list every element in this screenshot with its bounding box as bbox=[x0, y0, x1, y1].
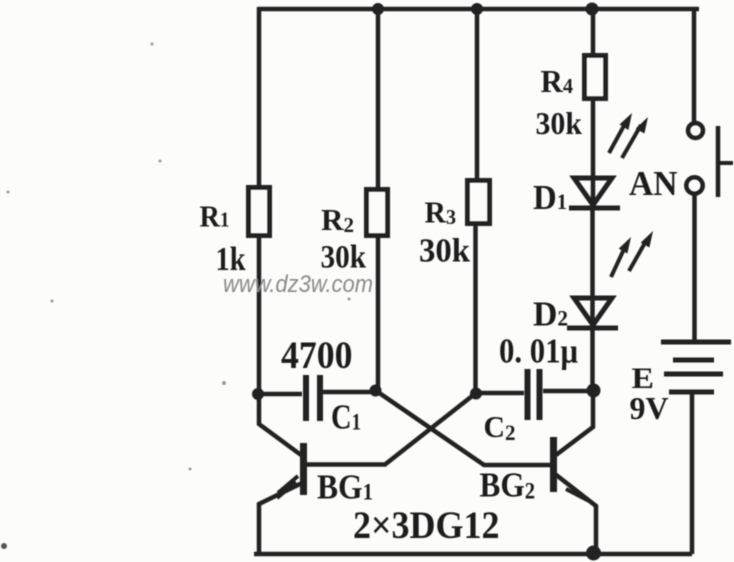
node junction bottom (BG2 emitter) bbox=[586, 546, 601, 561]
svg-text:C2: C2 bbox=[484, 409, 516, 445]
node junction top R4 bbox=[586, 3, 599, 16]
svg-text:www.dz3w.com: www.dz3w.com bbox=[223, 271, 373, 298]
svg-text:30k: 30k bbox=[419, 233, 470, 270]
wire R4 to D1 bbox=[591, 99, 596, 205]
node junction top R3 bbox=[471, 3, 483, 15]
svg-text:R3: R3 bbox=[425, 195, 457, 230]
resistor R3 bbox=[468, 181, 490, 224]
svg-text:R1: R1 bbox=[200, 199, 230, 234]
svg-text:D2: D2 bbox=[533, 295, 568, 334]
capacitor C2 bbox=[528, 369, 540, 420]
wire R4 branch top bbox=[591, 9, 596, 55]
wire C1 to node2 bbox=[323, 390, 376, 395]
LED D2 bbox=[567, 298, 618, 328]
resistor R4 bbox=[585, 56, 606, 99]
wire R1 branch top bbox=[257, 7, 262, 186]
svg-text:D1: D1 bbox=[533, 178, 567, 217]
wire R3 branch top bbox=[475, 9, 480, 180]
wire BG2 collector bbox=[556, 390, 593, 455]
wire D2 to node bbox=[590, 326, 595, 392]
wire switch branch top bbox=[692, 7, 697, 122]
svg-text:4700: 4700 bbox=[281, 334, 353, 377]
transistor BG1 bbox=[259, 443, 304, 553]
node junction 4 (C2/D2/BG2 collector) bbox=[587, 384, 601, 398]
node junction top R2 bbox=[372, 3, 384, 15]
wire BG2 base cross-coupling bbox=[375, 390, 551, 465]
wire R2 branch top bbox=[376, 9, 381, 190]
LED D1 bbox=[569, 178, 620, 208]
resistor R2 bbox=[367, 190, 388, 236]
transistor BG2 bbox=[554, 437, 597, 551]
wire BG1 base cross-coupling bbox=[306, 393, 476, 465]
wire D1 to D2 bbox=[590, 208, 595, 324]
wire R2 bottom bbox=[376, 234, 381, 391]
wire BG1 collector bbox=[259, 392, 301, 455]
svg-text:R2: R2 bbox=[321, 202, 354, 237]
node junction 1 (R1/C1/BG1 collector) bbox=[252, 388, 264, 400]
resistor R1 bbox=[249, 188, 270, 236]
svg-text:R4: R4 bbox=[541, 63, 574, 99]
wire bottom bus bbox=[254, 552, 692, 557]
node junction 3 (R3/C2/BG1 base) bbox=[470, 388, 482, 400]
light arrows for D1 bbox=[609, 113, 648, 158]
svg-text:0. 01μ: 0. 01μ bbox=[499, 332, 578, 371]
wire C2 to node4 bbox=[543, 389, 594, 394]
speck marks (scan noise) bbox=[1, 43, 351, 550]
node junction 2 (R2/C1/BG2 base) bbox=[370, 385, 382, 397]
svg-text:9V: 9V bbox=[630, 390, 669, 426]
wire R3 bottom bbox=[473, 223, 478, 394]
capacitor C1 bbox=[306, 375, 320, 421]
wire node1 to C1 bbox=[257, 392, 302, 397]
wire R1 bottom bbox=[257, 235, 262, 395]
svg-text:AN: AN bbox=[629, 164, 678, 203]
svg-text:2×3DG12: 2×3DG12 bbox=[353, 504, 500, 547]
light arrows for D2 bbox=[611, 231, 653, 277]
svg-text:C1: C1 bbox=[331, 398, 361, 437]
wire switch to battery bbox=[692, 196, 697, 341]
svg-text:BG1: BG1 bbox=[317, 468, 373, 507]
svg-text:BG2: BG2 bbox=[480, 466, 536, 505]
wire node3 to C2 bbox=[475, 391, 524, 396]
wire top bus bbox=[258, 7, 699, 12]
pushbutton switch AN bbox=[686, 123, 733, 197]
battery E bbox=[661, 342, 731, 392]
wire battery to bottom bus bbox=[690, 392, 695, 554]
svg-text:30k: 30k bbox=[536, 106, 583, 141]
